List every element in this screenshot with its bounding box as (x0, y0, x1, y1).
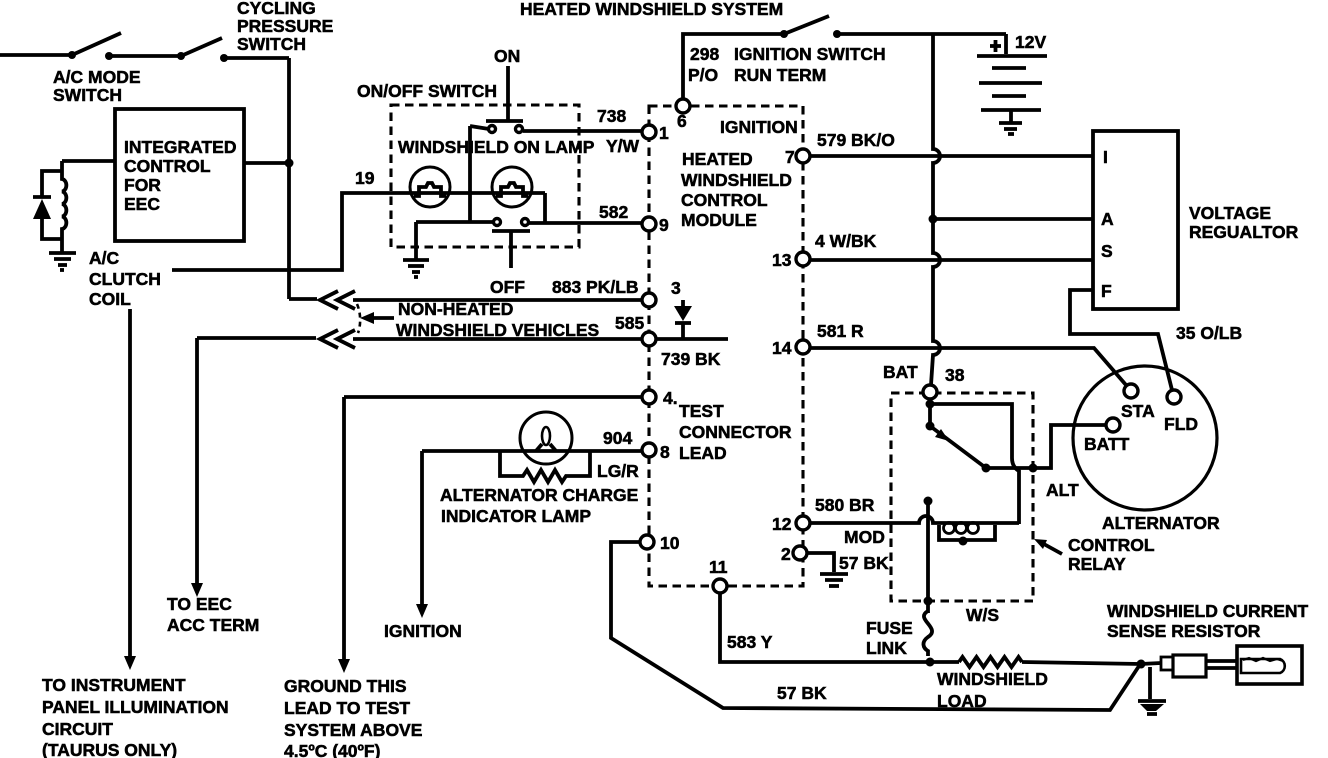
box U1 INTEGRATED CONTROL FOR EEC (115, 109, 244, 241)
node ignition switch terminal 1 (780, 30, 788, 38)
wire 739 BK stub (656, 337, 728, 341)
svg-text:12V: 12V (1015, 32, 1046, 52)
battery plus sign (990, 44, 1001, 48)
pin 3 (642, 293, 656, 307)
svg-text:9: 9 (659, 215, 669, 235)
wire ignition switch to battery (837, 32, 1006, 36)
wire sense resistor leads (1206, 659, 1237, 663)
wire 57 BK pin 2 to ground (807, 553, 834, 572)
wire A/C mode switch feed (0, 53, 70, 57)
svg-text:582: 582 (599, 202, 628, 222)
connector chevrons on 883 wire (320, 291, 338, 309)
inductor L1 A/C clutch coil (62, 161, 66, 252)
svg-text:LEAD TO TEST: LEAD TO TEST (284, 698, 410, 718)
svg-text:3: 3 (671, 278, 681, 298)
svg-text:CONTROL: CONTROL (681, 190, 768, 210)
ground clutch coil ground (49, 251, 76, 255)
wire drop to EEC ACC TERM (195, 338, 199, 583)
svg-text:A/C: A/C (89, 248, 120, 268)
diode D1 clutch coil flyback diode (42, 171, 62, 196)
pin 8 (642, 443, 656, 457)
box on/off switch dashed boundary (391, 105, 579, 247)
svg-text:ON: ON (494, 46, 520, 66)
pin 13 (796, 252, 810, 266)
contact on/off switch upper left (489, 126, 496, 133)
wire 904 LG/R ignition to pin 8 (422, 449, 642, 453)
svg-text:57 BK: 57 BK (839, 553, 889, 573)
wire relay fixed contact branch (930, 404, 1019, 524)
wire vertical drop from pressure switch (287, 58, 291, 299)
svg-text:SWITCH: SWITCH (53, 85, 122, 105)
svg-text:FOR: FOR (124, 175, 161, 195)
ground battery ground (1009, 110, 1013, 122)
node junction battery feed to regulator A (929, 215, 938, 224)
svg-text:585: 585 (615, 313, 644, 333)
wire alternator BATT output to relay (986, 425, 1106, 468)
svg-text:TO EEC: TO EEC (167, 594, 232, 614)
svg-text:MOD: MOD (844, 527, 885, 547)
battery B1 plates (977, 54, 1047, 58)
svg-text:BATT: BATT (1084, 434, 1130, 454)
svg-text:GROUND THIS: GROUND THIS (284, 676, 407, 696)
svg-text:OFF: OFF (490, 277, 525, 297)
wire lamp riser to 582 contact (543, 193, 547, 222)
svg-text:PRESSURE: PRESSURE (237, 16, 333, 36)
svg-text:VOLTAGE: VOLTAGE (1189, 203, 1271, 223)
svg-text:MODULE: MODULE (681, 210, 757, 230)
node junction ALT wire on relay edge (1029, 464, 1038, 473)
svg-text:WINDSHIELD ON LAMP: WINDSHIELD ON LAMP (398, 137, 595, 157)
wire drop ground this lead (342, 397, 346, 659)
diode D2 test connector diode (681, 300, 685, 306)
svg-text:EEC: EEC (124, 194, 160, 214)
wire junction to connector (1141, 663, 1161, 664)
node relay blade tip (982, 464, 991, 473)
svg-text:8: 8 (660, 442, 670, 462)
svg-text:I: I (1103, 147, 1108, 167)
wire 585 to module pin (353, 337, 641, 341)
svg-text:CONTROL: CONTROL (1068, 535, 1155, 555)
wire 582 to pin 9 (529, 221, 642, 225)
svg-text:LG/R: LG/R (597, 461, 639, 481)
lamp windshield on lamp right bulb (492, 167, 532, 207)
svg-text:TO INSTRUMENT: TO INSTRUMENT (42, 675, 186, 695)
node A/C mode switch terminal 1 (68, 51, 76, 59)
svg-text:6: 6 (677, 111, 687, 131)
wire A/C clutch coil feed to lamps (circuit 19) (172, 193, 545, 270)
node cycling pressure switch terminal 2 (220, 54, 228, 62)
resistor R1 lamp shunt with box (500, 451, 590, 482)
svg-text:581 R: 581 R (817, 321, 864, 341)
pin 2 (793, 546, 807, 560)
pin STA (1124, 384, 1138, 398)
relay coil core (939, 525, 995, 540)
svg-text:738: 738 (597, 106, 626, 126)
pin 10 (640, 535, 654, 549)
wire EEC left to clutch coil (62, 159, 115, 163)
wire drop to instrument panel illumination (128, 309, 132, 656)
svg-text:ALT: ALT (1046, 480, 1079, 500)
wire between A/C mode and cycling pressure switch (109, 54, 178, 58)
wire 883 PK/LB to pin 3 (353, 298, 643, 302)
svg-text:LEAD: LEAD (679, 443, 727, 463)
svg-text:13: 13 (772, 250, 792, 270)
node A/C mode switch terminal 2 (105, 52, 113, 60)
svg-text:FLD: FLD (1164, 414, 1198, 434)
svg-text:NON-HEATED: NON-HEATED (398, 299, 513, 319)
pin 11 (713, 579, 727, 593)
svg-text:38: 38 (945, 365, 965, 385)
svg-text:7: 7 (785, 147, 795, 167)
svg-text:BAT: BAT (883, 362, 918, 382)
svg-text:COIL: COIL (89, 289, 131, 309)
svg-text:STA: STA (1121, 401, 1155, 421)
node junction fuse link to windshield load (926, 658, 935, 667)
wire 579 BK/O pin 7 to regulator I (810, 154, 1093, 158)
svg-text:INTEGRATED: INTEGRATED (124, 137, 236, 157)
wire W/S output from relay (926, 501, 930, 613)
svg-text:CONNECTOR: CONNECTOR (679, 422, 792, 442)
wire 580 BR pin 12 to relay coil (810, 516, 1019, 523)
pin 12 (796, 516, 810, 530)
contact on/off switch lower right (522, 219, 529, 226)
svg-text:LOAD: LOAD (937, 691, 987, 711)
svg-text:HEATED: HEATED (682, 149, 753, 169)
arrow control relay pointer (1042, 543, 1062, 554)
inductor relay coil (944, 523, 955, 534)
pin relay BAT (923, 385, 937, 399)
wire 883 PK/LB stub from pressure switch drop (289, 297, 317, 301)
switch S1 A/C mode switch blade (72, 33, 121, 55)
contact on/off switch upper right (516, 126, 523, 133)
wire 738 Y/W to pin 1 (523, 129, 642, 133)
svg-text:739 BK: 739 BK (661, 349, 721, 369)
svg-text:FUSE: FUSE (866, 618, 913, 638)
svg-text:S: S (1101, 241, 1113, 261)
svg-text:(TAURUS ONLY): (TAURUS ONLY) (42, 740, 177, 758)
pin 585 (642, 332, 656, 346)
wire relay internal BAT stem (928, 399, 932, 426)
non-heated windshield alternate path dashed arc (357, 304, 360, 333)
wire riser between lamps (468, 126, 472, 222)
svg-text:WINDSHIELD: WINDSHIELD (937, 669, 1048, 689)
svg-text:A: A (1101, 209, 1114, 229)
svg-text:ON/OFF SWITCH: ON/OFF SWITCH (357, 81, 497, 101)
node W/S tap (924, 497, 933, 506)
wire lower-left contact to ground (416, 220, 493, 224)
svg-text:298: 298 (690, 44, 719, 64)
svg-text:F: F (1101, 281, 1112, 301)
node junction sense resistor ground (1137, 660, 1146, 669)
alternator A1 case (1073, 366, 1217, 510)
pin FLD (1167, 390, 1181, 404)
svg-text:19: 19 (355, 168, 375, 188)
svg-text:RUN TERM: RUN TERM (734, 65, 826, 85)
wire cycling pressure switch output (224, 56, 289, 60)
svg-text:PANEL ILLUMINATION: PANEL ILLUMINATION (42, 697, 229, 717)
svg-text:A/C MODE: A/C MODE (53, 67, 141, 87)
svg-text:IGNITION SWITCH: IGNITION SWITCH (734, 44, 886, 64)
node relay armature pivot (926, 422, 935, 431)
svg-text:IGNITION: IGNITION (384, 621, 462, 641)
sense element (1241, 659, 1285, 673)
node relay core tap (959, 537, 968, 546)
wire main battery feed vertical with crossover hops (931, 34, 940, 385)
svg-text:1: 1 (659, 123, 669, 143)
svg-text:ACC TERM: ACC TERM (167, 615, 259, 635)
switch S3 ON actuator stem (506, 66, 510, 121)
lamp windshield on lamp left bulb (410, 167, 450, 207)
svg-text:P/O: P/O (688, 65, 718, 85)
pin 4 (642, 390, 656, 404)
svg-text:883 PK/LB: 883 PK/LB (552, 277, 639, 297)
arrow non-heated vehicles pointer (370, 316, 394, 320)
switch relay armature blade (930, 426, 986, 468)
ground on/off switch ground (403, 258, 429, 262)
svg-text:SYSTEM ABOVE: SYSTEM ABOVE (284, 720, 422, 740)
wire windshield load to sense resistor (1022, 662, 1141, 664)
wire 581 R pin 14 to alternator STA (810, 348, 1126, 385)
svg-text:W/S: W/S (966, 605, 999, 625)
svg-text:904: 904 (603, 428, 632, 448)
svg-text:SWITCH: SWITCH (237, 34, 306, 54)
resistor R2 windshield load (959, 657, 1022, 667)
box K1 control relay dashed boundary (891, 393, 1033, 601)
wire 583 Y from pin 11 (720, 593, 959, 662)
svg-text:REGUALTOR: REGUALTOR (1189, 222, 1299, 242)
svg-text:2: 2 (781, 544, 791, 564)
box U3 voltage regulator (1093, 131, 1178, 309)
switch S3 OFF actuator stem (492, 229, 530, 233)
pin 7 (796, 149, 810, 163)
ground sense resistor ground (1148, 667, 1152, 699)
wire regulator A terminal feed (933, 217, 1093, 221)
svg-text:35 O/LB: 35 O/LB (1176, 323, 1242, 343)
svg-text:LINK: LINK (866, 638, 907, 658)
node ignition switch terminal 2 (833, 30, 841, 38)
svg-text:HEATED WINDSHIELD SYSTEM: HEATED WINDSHIELD SYSTEM (520, 0, 783, 19)
svg-text:CLUTCH: CLUTCH (89, 269, 161, 289)
svg-text:4 W/BK: 4 W/BK (815, 231, 877, 251)
resistor R3 windshield current sense resistor body (1173, 655, 1206, 677)
svg-text:4.: 4. (663, 388, 678, 408)
svg-text:ALTERNATOR: ALTERNATOR (1102, 513, 1220, 533)
svg-text:580 BR: 580 BR (815, 495, 875, 515)
node relay contact feed (926, 400, 935, 409)
pin 14 (796, 340, 810, 354)
pin 9 (642, 217, 656, 231)
svg-text:14: 14 (772, 338, 792, 358)
wire ignition switch run term feed (683, 34, 781, 99)
switch blade upper (470, 126, 489, 129)
svg-text:INDICATOR LAMP: INDICATOR LAMP (441, 506, 591, 526)
svg-text:11: 11 (709, 557, 728, 577)
wire 585 from EEC ACC drop (197, 336, 316, 340)
node cycling pressure switch terminal 1 (177, 52, 185, 60)
switch S4 ignition switch blade (784, 16, 829, 34)
lamp alternator charge indicator lamp (520, 412, 572, 464)
svg-text:57 BK: 57 BK (777, 683, 827, 703)
switch S2 cycling pressure switch blade (181, 38, 222, 56)
svg-text:WINDSHIELD: WINDSHIELD (681, 170, 792, 190)
wire 57 BK ground return from pin 10 (611, 542, 1139, 710)
svg-text:IGNITION: IGNITION (720, 117, 798, 137)
fuse link F1 (923, 611, 932, 656)
wire pin 4 test lead (344, 395, 642, 399)
svg-text:10: 10 (660, 533, 680, 553)
connector sense resistor terminal (1161, 657, 1173, 670)
contact on/off switch lower left (494, 219, 501, 226)
svg-text:4.5ºC (40ºF): 4.5ºC (40ºF) (284, 741, 380, 758)
svg-text:CIRCUIT: CIRCUIT (42, 719, 113, 739)
svg-text:579 BK/O: 579 BK/O (817, 130, 895, 150)
svg-text:CONTROL: CONTROL (124, 156, 211, 176)
box sense element housing (1237, 646, 1302, 684)
svg-text:TEST: TEST (679, 401, 724, 421)
wire drop to ignition (420, 451, 424, 604)
box U2 heated windshield control module dashed boundary (649, 106, 803, 586)
svg-text:RELAY: RELAY (1068, 554, 1126, 574)
svg-text:WINDSHIELD VEHICLES: WINDSHIELD VEHICLES (396, 320, 599, 340)
connector chevrons on 585 wire (320, 330, 338, 348)
svg-text:Y/W: Y/W (606, 136, 640, 156)
svg-text:SENSE RESISTOR: SENSE RESISTOR (1107, 621, 1261, 641)
pin BATT (1106, 418, 1120, 432)
svg-text:WINDSHIELD CURRENT: WINDSHIELD CURRENT (1107, 601, 1309, 621)
node W/S on relay box edge (924, 597, 933, 606)
svg-text:ALTERNATOR CHARGE: ALTERNATOR CHARGE (440, 485, 638, 505)
pin 1 (642, 125, 656, 139)
wire 4 W/BK pin 13 to regulator S (810, 258, 1093, 262)
ground module pin 2 ground (820, 572, 848, 576)
node junction EEC output on pressure switch drop (244, 161, 289, 165)
pin 6 (676, 99, 690, 113)
svg-text:583 Y: 583 Y (727, 632, 773, 652)
battery B1 12V positive lead (1004, 34, 1008, 54)
wire 35 O/LB regulator F to alternator FLD (1070, 290, 1172, 390)
svg-text:12: 12 (772, 514, 792, 534)
